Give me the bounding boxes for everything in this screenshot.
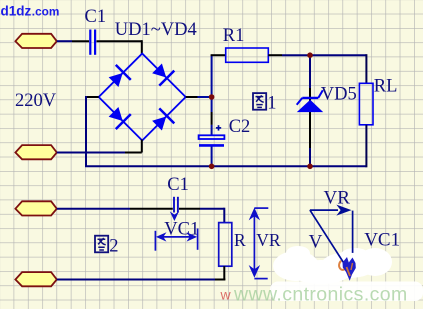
vector diagram arrow V (diagonal) [310,210,347,268]
svg-text:2: 2 [109,236,118,256]
terminal P4 (figure 2 input bottom) [15,272,56,286]
terminal P1 (220V line input) [15,34,56,48]
white overlay cloud [270,246,423,301]
wire RL bottom to rail [365,125,367,168]
svg-text:R1: R1 [223,26,245,46]
wire P2 to bridge bottom [57,140,142,153]
junction node (R1 out / VD5 top) [307,52,313,58]
svg-text:VR: VR [256,230,281,250]
resistor RL [359,83,373,125]
label 图1 [253,93,276,114]
label 图2 [95,236,118,257]
resistor R (figure 2) [219,223,232,267]
svg-text:w: w [220,287,232,303]
wire R1 to VD5 node and RL [268,54,366,83]
svg-text:.com: .com [32,4,60,18]
vector diagram line VC1 (vertical) [352,211,354,253]
capacitor C1 [90,30,95,55]
wire P3 to C1' [57,208,173,210]
dimension arrow VC1 [155,229,197,251]
wire P4 to R [57,279,226,281]
wire C1 to bridge top [97,40,142,54]
svg-text:C1: C1 [85,7,107,27]
bridge diode VD2 (top-right) [150,61,175,86]
wire vertical node column x=211.6 [211,55,213,166]
svg-text:VC1: VC1 [364,230,400,251]
vector diagram arrow VR [310,205,352,216]
svg-text:VD5: VD5 [321,85,357,105]
mouse cursor icon [339,257,356,281]
wire node to R1 [211,54,226,56]
wire bridge left vertex to rail [86,96,99,166]
svg-text:C1: C1 [167,175,189,195]
bridge diode VD1 (top-left) [106,65,131,90]
wire VD5 column x=310 [309,55,311,166]
svg-text:V: V [309,232,323,253]
wire R bottom to P4 run [223,266,225,279]
svg-text:RL: RL [374,76,398,96]
bridge diode VD4 (bottom-right) [150,108,175,133]
svg-text:R: R [234,230,246,250]
junction node (VD5 bottom / rail) [307,164,313,170]
svg-text:d1dz: d1dz [1,3,32,18]
capacitor C2 (polarized) [199,125,225,145]
wire rail (bottom of figure 1) [85,165,366,167]
svg-text:VR: VR [324,188,351,209]
svg-text:220V: 220V [15,91,57,111]
svg-text:1: 1 [267,94,276,114]
wire bridge right vertex to node [186,96,212,98]
svg-text:C2: C2 [229,117,251,137]
watermark d1dz.com [1,3,60,18]
zener diode VD5 [297,90,324,112]
terminal P2 (220V neutral input) [15,145,56,159]
resistor R1 [226,48,269,62]
terminal P3 (figure 2 input top) [15,201,56,215]
svg-text:UD1~VD4: UD1~VD4 [115,20,197,40]
dimension arrow VR (figure 2) [249,208,269,279]
svg-text:www.cntronics.com: www.cntronics.com [233,284,408,306]
junction node (bridge+ to R1/C2) [209,94,215,100]
wire P1 to C1 [57,40,89,42]
wire C1' to R top [179,208,224,223]
annotation down arrowhead under C1' [170,211,179,221]
bridge diode VD3 (bottom-left) [106,104,131,129]
bridge diamond wire [99,54,186,141]
capacitor C1 (figure 2) [174,197,178,213]
junction node (C2 bottom / rail) [209,164,215,170]
